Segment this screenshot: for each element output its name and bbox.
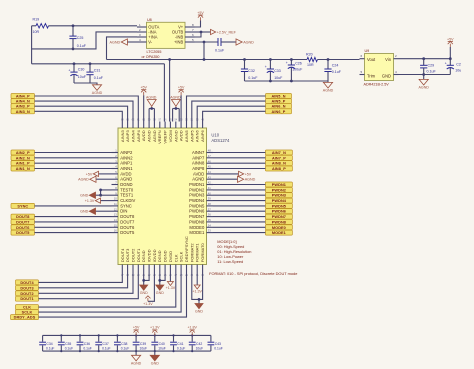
net label AIN7_N [265,150,292,155]
wire cap bank top rail [43,334,211,336]
wire DGND col8 down [159,272,161,286]
wire AIN1_P [35,162,112,164]
svg-text:VREFN: VREFN [157,130,162,144]
net label PWDN6 [265,209,292,214]
net label CLK [16,305,39,310]
svg-text:GND: GND [382,73,391,78]
svg-text:C25: C25 [77,36,84,40]
capacitor C29 [423,59,425,66]
svg-text:+1.3V: +1.3V [166,286,176,290]
svg-text:AGND: AGND [110,41,121,45]
svg-text:+: + [68,68,70,72]
capacitor C36 [77,334,92,352]
svg-text:AGND: AGND [152,130,157,142]
svg-text:AIN7_N: AIN7_N [272,151,286,155]
svg-text:+5V: +5V [140,86,147,90]
svg-text:AVDD: AVDD [120,171,131,176]
svg-text:PWDN7: PWDN7 [189,214,205,219]
svg-text:MODE0: MODE0 [272,226,286,230]
svg-text:PWDN2: PWDN2 [189,187,205,192]
svg-text:AGND: AGND [170,95,181,99]
svg-text:C40: C40 [159,342,165,346]
svg-text:10R: 10R [307,63,314,67]
svg-text:PWDN5: PWDN5 [189,203,205,208]
svg-text:FORMAT2: FORMAT2 [189,243,194,263]
net label AIN7_P [265,155,292,160]
svg-text:C43: C43 [215,342,221,346]
svg-text:DGND: DGND [163,250,168,262]
capacitor C30 [73,62,76,65]
net label DOUT4 [16,280,39,285]
wire PWDN1 [213,184,265,186]
svg-text:0.1uF: 0.1uF [177,346,185,350]
svg-text:PWDN1: PWDN1 [272,183,286,187]
svg-text:+5V: +5V [86,172,93,176]
svg-text:Vin: Vin [385,57,392,62]
svg-text:AINP6: AINP6 [200,130,205,142]
ground AGND under C31 [92,85,101,91]
U10 top pins [120,118,205,143]
svg-text:37: 37 [208,207,211,211]
net label AIN4_P [11,94,35,99]
capacitor C34 [39,335,54,351]
svg-text:AGND: AGND [120,177,132,182]
svg-text:12: 12 [114,207,117,211]
svg-text:GND: GND [80,210,89,214]
svg-text:AINN6: AINN6 [195,130,200,143]
svg-text:GND: GND [156,291,164,295]
wire col6 join [144,272,149,281]
ground AGND under C29 [423,75,425,80]
svg-text:10uF: 10uF [158,346,166,350]
net label AIN4_N [11,99,35,104]
net label MODE1 [265,230,292,235]
svg-text:13: 13 [114,213,117,217]
net label SYNC [11,203,35,208]
power +1.3V above C40 [154,332,156,335]
svg-text:C26: C26 [295,61,302,65]
svg-text:DOUT6: DOUT6 [16,226,29,230]
svg-text:PWDN8: PWDN8 [272,220,286,224]
svg-text:C36: C36 [84,342,90,346]
svg-text:DOUT5: DOUT5 [120,230,135,235]
svg-text:AVDD: AVDD [179,130,184,141]
op-amp U8 LTC2055 [147,22,186,48]
resistor R20 [307,57,318,61]
svg-text:DOUT6: DOUT6 [120,225,135,230]
svg-text:10uF: 10uF [196,346,204,350]
wire AIN1_N [35,168,112,170]
svg-text:DOUT2: DOUT2 [20,292,33,296]
svg-text:MODE1: MODE1 [272,231,286,235]
ground AGND under C24 [327,81,329,82]
svg-text:U9: U9 [365,49,370,53]
svg-text:PWDN6: PWDN6 [189,209,205,214]
svg-text:AGND: AGND [147,130,152,142]
power +5V above AVDD top [143,95,145,121]
svg-text:AINP2: AINP2 [120,150,133,155]
svg-text:0.1uF: 0.1uF [83,346,91,350]
wire FORMAT1 to +1.3V [196,272,198,286]
wire OUTB to -INB feedback [195,32,202,37]
svg-text:AIN2_P: AIN2_P [16,151,30,155]
svg-text:SCLK: SCLK [22,311,33,315]
capacitor C43 [208,335,223,351]
net label PWDN4 [265,198,292,203]
wire PWDN2 [213,189,265,191]
net label PWDN2 [265,187,292,192]
wire AIN3_N [35,111,123,121]
svg-text:+5V: +5V [178,86,185,90]
svg-text:39: 39 [208,197,211,201]
svg-text:DGND: DGND [120,182,132,187]
U10 right pins [189,149,213,236]
ground AGND above cols6-7 [148,109,150,122]
svg-text:AGND: AGND [131,362,142,366]
wire +INB node [195,41,219,43]
power +5V right [449,47,451,59]
ground AGND at U8 V- [127,41,137,43]
wire DOUT2 [39,272,134,294]
ground AGND above col11 [172,109,174,122]
svg-text:GND: GND [80,194,89,198]
svg-text:PWDN7: PWDN7 [272,215,286,219]
capacitor C38 [114,334,129,352]
svg-text:42: 42 [208,181,211,185]
wire PWDN4 [213,200,265,202]
net label AIN1_N [11,166,35,171]
net label AIN6_P [266,109,292,114]
svg-text:PWDN1: PWDN1 [189,182,205,187]
svg-text:100uF: 100uF [292,67,303,71]
wire FORMAT2/FORMAT0 join [192,272,203,300]
svg-text:PWDN4: PWDN4 [272,199,287,203]
wire U9 Vin rail [399,58,451,60]
svg-text:AIN7_P: AIN7_P [272,156,286,160]
wire MODE0 [213,226,265,228]
capacitor C41 [170,334,185,352]
wire AIN4_N [35,101,134,121]
net label PWDN7 [265,214,292,219]
svg-text:45: 45 [208,165,211,169]
svg-text:+1.3V: +1.3V [192,290,202,294]
svg-text:C32: C32 [248,69,255,73]
wire DOUT3 [39,272,128,288]
svg-text:DOUT1: DOUT1 [20,297,33,301]
svg-text:10u: 10u [455,69,461,73]
svg-text:AINN1: AINN1 [120,166,133,171]
svg-text:AIN4_P: AIN4_P [16,95,30,99]
power +5V at U10 right AVDD [213,173,239,175]
svg-text:10: 10 [114,197,117,201]
net label DOUT8 [11,214,35,219]
svg-text:0.1uF: 0.1uF [65,346,73,350]
power +5V above AVDD col12 [180,95,182,121]
wire AIN7_N [213,152,265,154]
svg-text:14: 14 [114,218,117,222]
svg-text:AGND: AGND [146,95,157,99]
svg-text:C38: C38 [121,342,127,346]
svg-text:AIN5_N: AIN5_N [271,95,285,99]
svg-text:LTC2055: LTC2055 [147,50,162,54]
power +5V above C39 [135,332,137,335]
wire VREF rail A [107,59,308,61]
wire PWDN7 [213,216,265,218]
svg-text:AINP5: AINP5 [189,130,194,142]
svg-text:+1.8V: +1.8V [187,326,197,330]
svg-text:AINP7: AINP7 [192,155,205,160]
ground GND under FORMAT [198,299,200,303]
net label PWDN8 [265,219,292,224]
svg-text:AIN4_N: AIN4_N [16,100,30,104]
wire CLK [39,272,176,308]
wire -INA feedback [32,32,137,49]
capacitor C42 [189,334,203,352]
svg-text:+: + [265,65,267,69]
svg-text:34: 34 [208,223,211,227]
ground AGND at U10 right pin43 [213,178,238,180]
svg-text:PWDN8: PWDN8 [189,219,205,224]
svg-text:C39: C39 [140,342,146,346]
svg-text:or OPA350: or OPA350 [142,55,160,59]
svg-text:+: + [286,61,288,65]
svg-text:47: 47 [208,154,211,158]
svg-text:FORMAT0: FORMAT0 [200,243,205,263]
wire TEST0/TEST1 join [101,190,112,195]
svg-text:0.1uF: 0.1uF [46,346,54,350]
wire VREFP from rail B [163,64,165,122]
svg-text:33: 33 [208,229,211,233]
svg-text:+1.3V: +1.3V [150,326,160,330]
wire AIN7_P [213,157,265,159]
wire IOVDD col7 to +1.3V [148,272,155,302]
svg-text:AGND: AGND [419,86,430,90]
svg-text:AVDD: AVDD [193,171,204,176]
svg-text:46: 46 [208,159,211,163]
net +2.5V_REF [211,29,216,34]
svg-text:AIN5_P: AIN5_P [272,100,286,104]
svg-text:DOUT1: DOUT1 [136,248,141,262]
ground GND under col8 [156,285,164,290]
svg-text:+2.5V_REF: +2.5V_REF [217,31,237,35]
capacitor C28 series to AGND [217,38,219,46]
svg-text:AGND: AGND [243,41,254,45]
wire AIN2_N [35,157,112,159]
resistor R19 [32,25,36,27]
wire AIN4_P [35,96,139,122]
svg-text:C29: C29 [428,63,435,67]
wire cap bank bottom rail [43,350,211,352]
svg-text:DGND: DGND [157,250,162,262]
svg-text:C41: C41 [177,342,183,346]
capacitor C25 [72,26,74,36]
svg-text:Trim: Trim [367,73,376,78]
wire AIN8_N [213,162,265,164]
svg-text:DOUT3: DOUT3 [20,286,33,290]
svg-text:38: 38 [208,202,211,206]
svg-text:AINN4: AINN4 [131,130,136,143]
svg-text:R20: R20 [306,52,313,56]
wire cap bottoms join [74,83,97,85]
svg-text:DRDY_ADS: DRDY_ADS [14,316,36,320]
svg-text:+1.3V: +1.3V [143,302,153,306]
svg-text:AINN7: AINN7 [192,150,205,155]
svg-text:0.1uF: 0.1uF [94,76,104,80]
svg-text:35: 35 [208,218,211,222]
svg-text:AIN6_P: AIN6_P [272,110,286,114]
capacitor C37 [95,334,110,352]
wire rail C bottom [245,80,329,82]
svg-text:36: 36 [208,213,211,217]
svg-text:U8: U8 [147,18,152,22]
net label AIN3_P [11,104,35,109]
wire PWDN5 [213,205,265,207]
svg-text:TEST1: TEST1 [120,193,134,198]
wire AIN3_P [35,106,128,121]
wire col9 join [160,272,165,281]
wire DOUT1 [39,272,139,299]
power +1.3V at CLKDIV [101,200,112,202]
net label SCLK [16,310,39,315]
svg-text:AGND: AGND [323,89,334,93]
svg-text:+5V: +5V [133,326,140,330]
svg-text:AIN3_P: AIN3_P [16,105,30,109]
svg-text:PWDN6: PWDN6 [272,210,286,214]
net label DOUT6 [11,225,35,230]
net label AIN3_N [11,109,35,114]
wire rail B [32,63,165,65]
svg-text:DOUT4: DOUT4 [120,248,125,262]
svg-text:GND: GND [195,309,203,313]
svg-text:DOUT5: DOUT5 [16,231,29,235]
svg-text:DIN: DIN [120,209,127,214]
wire AIN5_N [187,96,266,122]
svg-text:AGND: AGND [78,178,89,182]
net label AIN8_N [265,161,292,166]
svg-text:DVDD: DVDD [168,251,173,262]
svg-text:IOVDD: IOVDD [152,249,157,262]
svg-text:PWDN5: PWDN5 [272,204,286,208]
svg-text:DOUT2: DOUT2 [131,248,136,262]
wire DOUT6 [35,226,112,228]
svg-text:AVDD: AVDD [141,130,146,141]
svg-text:VREFP: VREFP [163,130,168,144]
capacitor C24 [327,58,330,61]
net label AIN1_P [11,161,35,166]
svg-text:44: 44 [208,170,211,174]
svg-text:AINP1: AINP1 [120,161,133,166]
net label DOUT7 [11,219,35,224]
svg-text:DOUT3: DOUT3 [125,248,130,262]
wire left input bus [31,26,33,64]
svg-text:AIN6_N: AIN6_N [271,105,285,109]
svg-text:DOUT7: DOUT7 [120,219,135,224]
svg-text:0.1uF: 0.1uF [102,346,110,350]
svg-text:U10: U10 [211,133,219,138]
wire AIN8_P [213,168,265,170]
ground GND under col5 [140,285,148,290]
svg-text:AINN5: AINN5 [184,130,189,143]
svg-text:DOUT7: DOUT7 [16,220,29,224]
node at R19/C25 [72,24,75,27]
svg-text:AIN8_P: AIN8_P [272,167,286,171]
svg-text:CLKDIV: CLKDIV [120,198,135,203]
svg-text:SCLK: SCLK [179,251,184,262]
capacitor C35 [58,334,73,352]
svg-text:15: 15 [114,223,117,227]
svg-text:GND: GND [140,291,148,295]
power +1.8V above C42 [191,332,193,335]
capacitor C40 [151,334,165,352]
ground GND at DIN pin12 [96,210,112,212]
svg-text:MODE1: MODE1 [189,230,205,235]
svg-text:16: 16 [114,229,117,233]
svg-text:C34: C34 [46,342,52,346]
ground AGND at U10 pin6 [96,178,112,180]
net label DOUT5 [11,230,35,235]
wire OUTB to +2.5V_REF [195,31,211,33]
svg-text:PWDN4: PWDN4 [189,198,205,203]
svg-text:Vout: Vout [367,57,376,62]
svg-text:AGND: AGND [173,130,178,142]
svg-text:40: 40 [208,191,211,195]
svg-text:DOUT8: DOUT8 [120,214,135,219]
capacitor C33 [269,58,272,61]
capacitor C2 [449,59,451,66]
net label PWDN1 [265,182,292,187]
svg-text:CLK: CLK [173,254,178,262]
svg-text:AIN1_P: AIN1_P [16,162,30,166]
svg-text:VCOM: VCOM [168,130,173,142]
wire PWDN8 [213,221,265,223]
wire DGND col5 down [143,272,145,286]
wire AIN2_P [35,152,112,154]
power +5V at U10 AVDD pin5 [99,173,112,175]
svg-text:AIN2_N: AIN2_N [16,156,30,160]
wire PWDN3 [213,194,265,196]
svg-text:SYNC: SYNC [17,204,28,208]
svg-text:FORMAT: 010 - SPI protocol, Di: FORMAT: 010 - SPI protocol, Discrete DOU… [209,271,297,276]
wire SCLK [39,272,182,313]
wire U9 GND rail [399,74,451,76]
power +1.3V lower-left [147,298,149,301]
wire PWDN6 [213,210,265,212]
power +5V at U8 V+ [195,21,201,28]
svg-text:+5V: +5V [245,172,252,176]
svg-text:PWDN3: PWDN3 [272,194,286,198]
svg-text:CLK: CLK [23,306,31,310]
svg-text:IOVDD: IOVDD [147,249,152,262]
wire DOUT5 [35,232,112,234]
net label PWDN5 [265,203,292,208]
svg-text:AINP8: AINP8 [192,166,205,171]
wire AIN6_N [197,106,265,121]
svg-text:AINP4: AINP4 [136,130,141,142]
svg-text:AGND: AGND [92,91,103,95]
svg-text:43: 43 [208,175,211,179]
net label AIN8_P [265,166,292,171]
svg-text:0.1uF: 0.1uF [215,49,225,53]
net label AIN5_N [266,94,292,99]
svg-text:0.1uF: 0.1uF [121,346,129,350]
wire +INB to rail A [203,42,205,60]
svg-text:DOUT8: DOUT8 [16,215,29,219]
svg-text:+: + [445,62,447,66]
svg-text:AINP3: AINP3 [125,130,130,142]
svg-text:AIN8_N: AIN8_N [272,162,286,166]
svg-text:C42: C42 [196,342,202,346]
svg-text:AIN3_N: AIN3_N [16,110,30,114]
